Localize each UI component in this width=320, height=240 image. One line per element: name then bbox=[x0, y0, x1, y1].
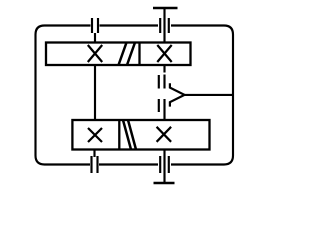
bearing X lower-right bbox=[157, 127, 172, 142]
bearing plates bottom-centre bbox=[92, 156, 98, 173]
bearing X lower-left bbox=[88, 128, 102, 142]
housing top wall left segment bbox=[36, 26, 91, 35]
shaft 1 middle section bbox=[94, 65, 96, 120]
output shaft end bar bbox=[154, 182, 175, 185]
gear block lower: body bbox=[72, 120, 209, 150]
clutch lower disc pair bbox=[159, 99, 165, 112]
housing right wall bbox=[232, 35, 234, 156]
housing bottom wall middle segment bbox=[99, 163, 158, 165]
bearing X upper-right bbox=[157, 45, 171, 62]
housing top wall middle segment bbox=[100, 24, 159, 26]
clutch upper disc pair bbox=[159, 75, 165, 89]
output shaft lower section bbox=[163, 150, 165, 184]
shaft 1 upper stub bbox=[94, 33, 96, 43]
gear block upper: body bbox=[46, 43, 191, 66]
housing top wall right segment bbox=[171, 26, 233, 35]
housing bottom wall right segment bbox=[171, 156, 233, 165]
cone clutch triangle bbox=[170, 83, 185, 106]
clutch upper shaft stub bbox=[163, 65, 165, 73]
clutch control wire to housing bbox=[185, 94, 234, 96]
bearing plates bottom-right bbox=[160, 156, 169, 173]
shaft 1 lower stub bbox=[93, 150, 95, 158]
bearing plates top-centre bbox=[92, 18, 98, 33]
gear block upper: divider bbox=[138, 43, 140, 66]
housing left wall bbox=[34, 35, 36, 156]
housing bottom wall left segment bbox=[36, 156, 91, 165]
gear hatch upper (//) bbox=[119, 43, 136, 66]
input shaft bbox=[163, 8, 165, 43]
clutch lower shaft stub bbox=[163, 112, 165, 120]
bearing plates top-right bbox=[160, 18, 169, 33]
bearing X upper-left bbox=[88, 45, 102, 62]
gear block lower: divider bbox=[118, 120, 120, 150]
input shaft end bar bbox=[153, 7, 178, 10]
gear hatch lower (\\) bbox=[123, 120, 136, 150]
